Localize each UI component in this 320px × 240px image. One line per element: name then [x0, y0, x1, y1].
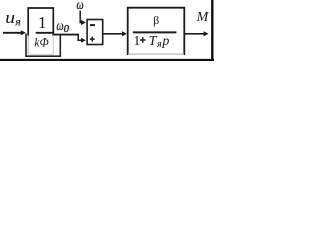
svg-text:я: я: [14, 16, 21, 28]
svg-text:я: я: [156, 39, 162, 50]
svg-text:u: u: [5, 8, 15, 27]
svg-text:kФ: kФ: [34, 36, 48, 50]
svg-text:1: 1: [133, 34, 140, 49]
svg-text:0: 0: [64, 24, 70, 35]
svg-text:ω: ω: [56, 19, 63, 34]
svg-text:M: M: [196, 10, 210, 25]
svg-text:1: 1: [38, 13, 47, 32]
svg-text:β: β: [153, 13, 159, 27]
svg-text:p: p: [161, 34, 169, 49]
